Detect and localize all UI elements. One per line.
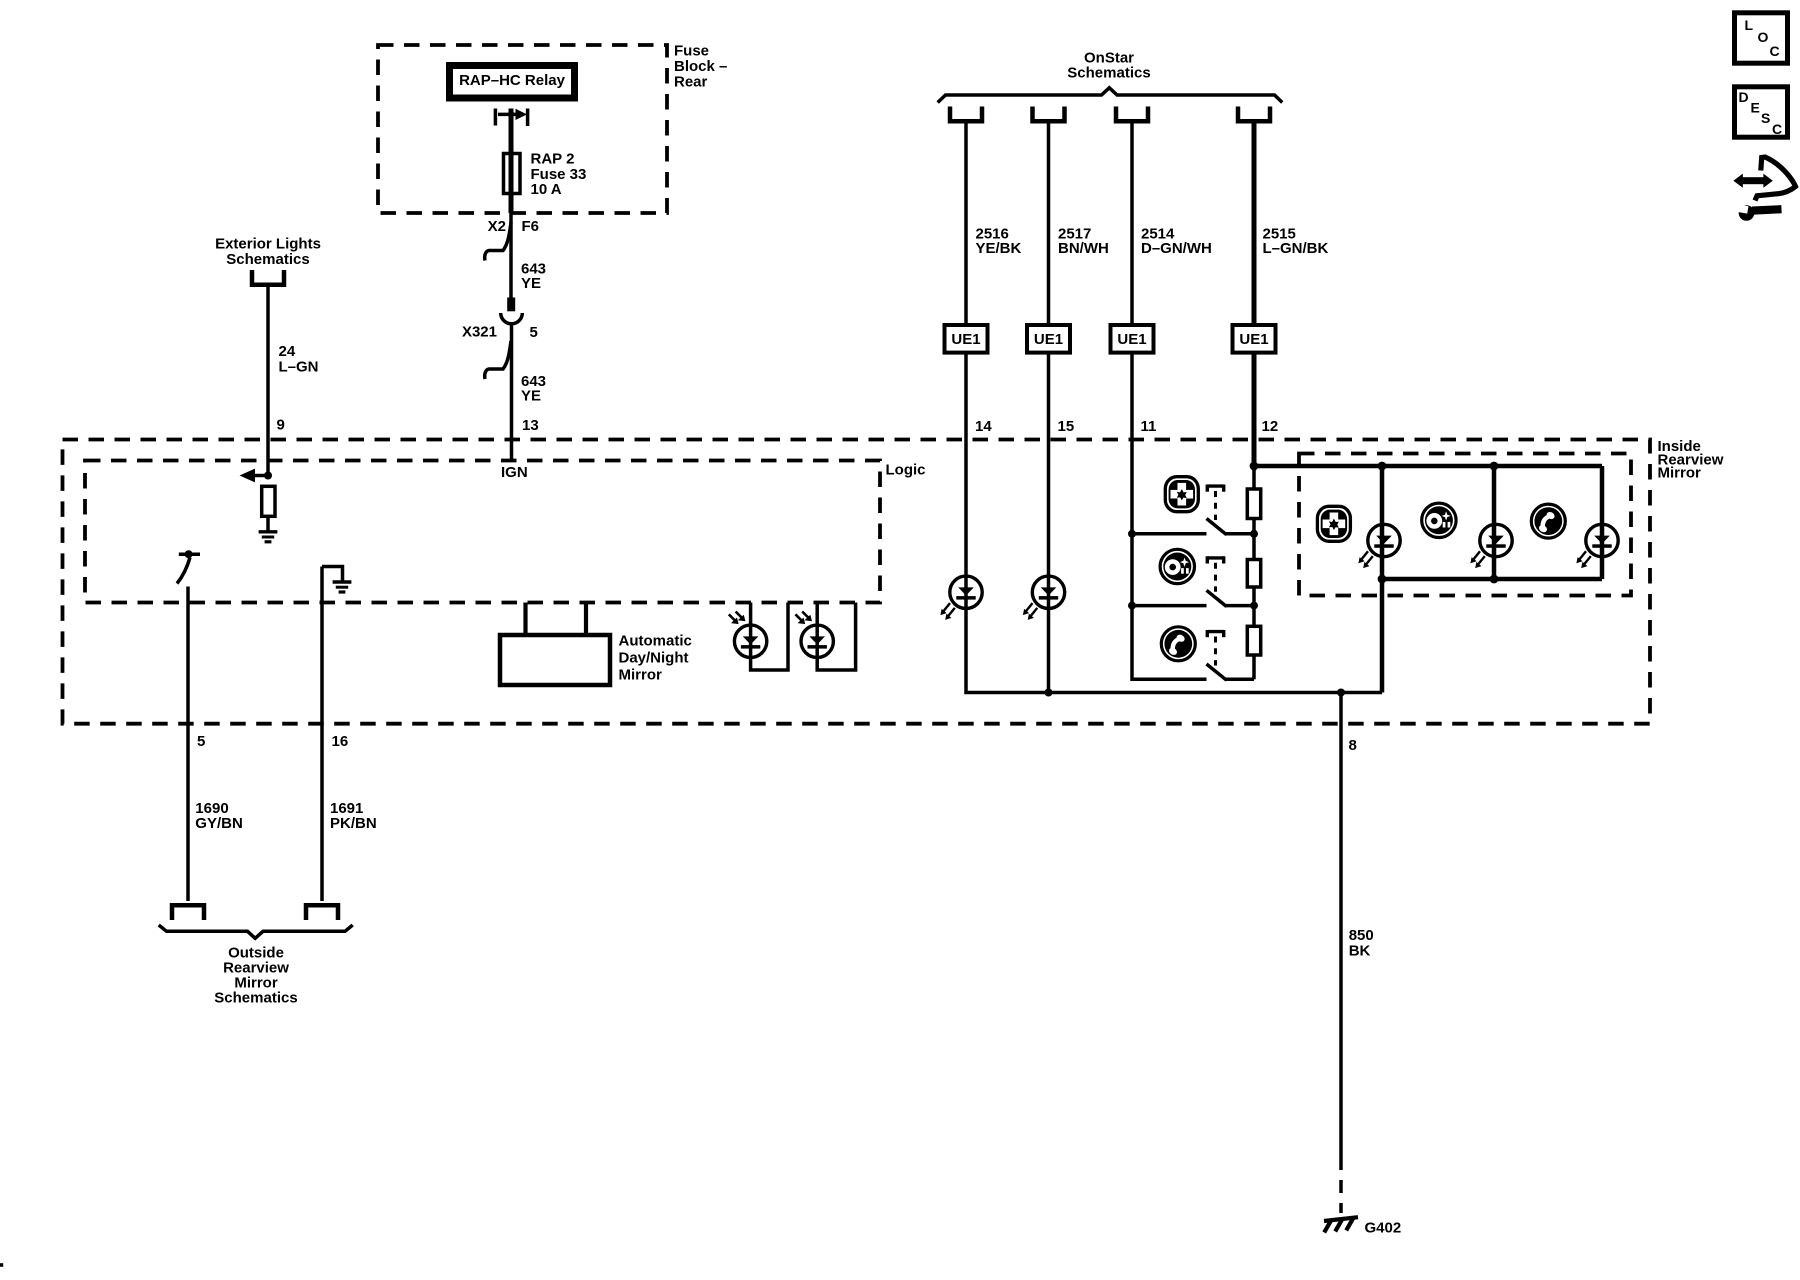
cluster LED 1 [1368, 524, 1400, 556]
fuse block dashed box: Fuse Block - Rear [378, 45, 667, 213]
junction dots on resistor chain [1250, 530, 1258, 538]
pushbutton switch 3 (phone) [1207, 630, 1227, 680]
svg-text:X2: X2 [488, 218, 506, 235]
photodiode branch 2 [817, 603, 855, 671]
svg-text:BN/WH: BN/WH [1058, 240, 1109, 257]
svg-text:Schematics: Schematics [226, 251, 309, 268]
svg-text:F6: F6 [522, 218, 540, 235]
svg-text:Block –: Block – [674, 58, 727, 75]
resistor R2 [1247, 560, 1260, 588]
wire 2514 D-GN/WH (pin 11) [1132, 122, 1207, 680]
svg-text:Schematics: Schematics [214, 990, 297, 1007]
svg-text:L–GN: L–GN [279, 358, 319, 375]
wire: fuse block exit to connector X321 [509, 213, 513, 298]
LED indicator on wire 15 [1032, 576, 1064, 608]
svg-text:PK/BN: PK/BN [330, 815, 377, 832]
svg-text:C: C [1772, 121, 1782, 137]
svg-text:16: 16 [332, 733, 349, 750]
connector X321 pin 5 (male pin and female cup) [507, 298, 515, 312]
svg-text:E: E [1751, 100, 1760, 116]
LOC reference box [1735, 13, 1788, 63]
interactive navigation icon (arrows and wrench) [1731, 157, 1796, 221]
cluster icon: OnStar logo [1422, 503, 1456, 537]
svg-text:13: 13 [522, 417, 539, 434]
off-page connector OnStar wire 2514 [1116, 107, 1148, 122]
pushbutton switch 1 (emergency) [1207, 485, 1227, 535]
wire: resistor to ground [266, 516, 270, 531]
svg-text:D: D [1739, 89, 1749, 105]
DESC reference box [1735, 87, 1788, 137]
signal arrow (left) at logic input [251, 474, 268, 478]
photodiode branch 1 [751, 603, 788, 671]
svg-text:Fuse: Fuse [674, 43, 709, 60]
LED branch 1 vertical (down to bus) [1380, 466, 1385, 693]
node junction dot [264, 472, 272, 480]
off-page connector OnStar wire 2515 [1238, 107, 1270, 122]
LED branch 3 vertical [1600, 466, 1605, 579]
resistor R3 [1247, 626, 1260, 655]
button icon: OnStar logo [1160, 549, 1194, 583]
svg-text:C: C [1770, 43, 1780, 59]
resistor (logic pull-down) [262, 486, 275, 516]
relay contact [494, 109, 498, 126]
brace: Outside Rearview Mirror Schematics [159, 925, 353, 938]
off-page connector (outside mirror wire 5) [172, 905, 204, 920]
inside rearview mirror outer dashed box [63, 440, 1651, 724]
svg-text:8: 8 [1349, 737, 1357, 754]
junction dot pin-8 drop on bus [1337, 689, 1345, 697]
switch stub row 1 (wire 11 to switch 1) [1132, 532, 1207, 536]
svg-text:Day/Night: Day/Night [619, 650, 689, 667]
svg-text:BK: BK [1349, 943, 1371, 960]
svg-text:X321: X321 [462, 324, 497, 341]
svg-text:850: 850 [1349, 927, 1374, 944]
button icon: emergency cross [1165, 477, 1198, 512]
svg-text:RAP–HC Relay: RAP–HC Relay [459, 72, 566, 89]
cluster LED 3 [1586, 524, 1618, 556]
brace: OnStar Schematics [938, 88, 1283, 103]
svg-text:G402: G402 [1365, 1220, 1402, 1237]
pushbutton switch 2 (OnStar) [1207, 556, 1227, 606]
ground G402 [1324, 1217, 1358, 1232]
switch (mirror drive) in logic box [179, 552, 200, 556]
svg-text:L–GN/BK: L–GN/BK [1263, 240, 1329, 257]
relay RAP-HC Relay box [450, 66, 575, 99]
cluster LED 2 [1480, 524, 1512, 556]
svg-text:5: 5 [530, 324, 538, 341]
svg-text:15: 15 [1058, 418, 1075, 435]
svg-text:O: O [1758, 29, 1769, 45]
junction dots in LED cluster [1378, 462, 1387, 471]
off-page connector (outside mirror wire 16) [306, 905, 338, 920]
ground (logic) [259, 532, 278, 542]
connector X2 pin F6 hook [485, 223, 511, 261]
wire 850 BK to ground (pin 8) [1339, 693, 1343, 1158]
svg-text:Logic: Logic [886, 462, 926, 479]
svg-text:IGN: IGN [501, 464, 528, 481]
photodiode D1 [734, 625, 766, 657]
svg-text:Mirror: Mirror [619, 667, 663, 684]
connector UE1 (wire 2517) [1027, 325, 1070, 353]
svg-text:D–GN/WH: D–GN/WH [1141, 240, 1212, 257]
logic dashed box [85, 461, 880, 603]
svg-text:5: 5 [197, 733, 205, 750]
connector UE1 (wire 2516) [945, 325, 988, 353]
wire pin 5 to outside mirror [186, 587, 190, 902]
svg-text:S: S [1761, 110, 1770, 126]
svg-text:Rear: Rear [674, 74, 708, 91]
automatic day/night mirror stubs [523, 603, 527, 637]
svg-text:GY/BN: GY/BN [195, 815, 243, 832]
wire: X321 to IGN [510, 323, 514, 461]
connector UE1 (wire 2515) [1233, 325, 1276, 353]
resistor R1 [1247, 489, 1260, 519]
bottom tie wire of LED cluster [1382, 577, 1602, 582]
svg-text:14: 14 [975, 418, 992, 435]
off-page connector OnStar wire 2516 [950, 107, 982, 122]
wire 24 L-GN [266, 285, 270, 476]
ground tie in logic box (wire 16 branch) [322, 567, 343, 582]
stray mark bottom-left [0, 1263, 3, 1267]
cluster icon: emergency cross [1317, 506, 1350, 541]
LED indicator on wire 14 [950, 576, 982, 608]
svg-text:L: L [1745, 17, 1754, 33]
svg-text:Automatic: Automatic [619, 633, 692, 650]
button/LED cluster dashed box [1299, 454, 1631, 596]
svg-text:Schematics: Schematics [1067, 64, 1150, 81]
wire 2517 BN/WH (pin 15) [1047, 122, 1051, 693]
svg-text:YE: YE [521, 387, 541, 404]
LED branch 2 vertical [1492, 466, 1497, 579]
svg-text:11: 11 [1141, 418, 1157, 435]
wire 2515 L-GN/BK (pin 12, thick) [1252, 122, 1257, 467]
svg-text:9: 9 [277, 417, 285, 434]
connector hook below X321 [485, 341, 511, 379]
wire 2516 YE/BK (pin 14) with bus to LED branch [966, 122, 1382, 693]
cluster icon: phone [1531, 504, 1565, 538]
off-page connector OnStar wire 2517 [1033, 107, 1065, 122]
photodiode D2 [801, 625, 833, 657]
switch stub row 2 (wire 11 to switch 2) [1132, 604, 1207, 608]
resistor chain wire segments on node 12 [1252, 466, 1256, 489]
thick wire: node 12 across LED branches [1254, 464, 1602, 469]
svg-text:12: 12 [1262, 418, 1279, 435]
svg-text:10 A: 10 A [531, 181, 562, 198]
wire: relay contact to fuse [509, 109, 514, 214]
svg-text:Mirror: Mirror [1658, 465, 1702, 482]
connector UE1 (wire 2514) [1111, 325, 1154, 353]
svg-text:YE/BK: YE/BK [976, 240, 1022, 257]
button icon: phone [1161, 627, 1195, 661]
wire pin 16 to outside mirror [320, 567, 324, 902]
svg-text:YE: YE [521, 275, 541, 292]
automatic day/night mirror box [500, 635, 610, 685]
junction dot wire 15 on bus [1045, 689, 1053, 697]
fuse RAP 2 Fuse 33 10 A [504, 154, 521, 194]
